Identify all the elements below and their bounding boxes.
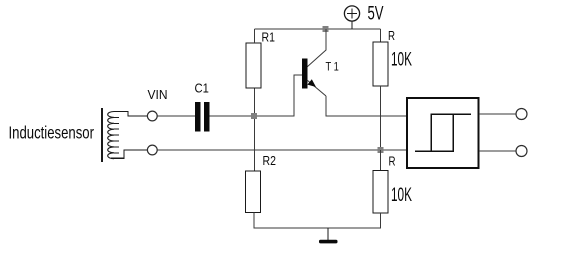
schmitt trigger box U1 bbox=[407, 98, 479, 168]
wire collector bbox=[307, 29, 326, 67]
svg-text:C1: C1 bbox=[195, 81, 210, 96]
wire inductor top lead bbox=[114, 112, 147, 117]
resistor R2 bbox=[246, 171, 261, 213]
transistor T1 base bar bbox=[302, 59, 308, 89]
wire lower signal line bbox=[157, 149, 407, 151]
schmitt hysteresis symbol bbox=[415, 114, 471, 151]
wire rail down to R top bbox=[380, 29, 382, 42]
terminal bottom circle bbox=[147, 145, 157, 155]
resistor R top 10K bbox=[373, 42, 388, 86]
ground stem bbox=[327, 228, 329, 240]
svg-text:5V: 5V bbox=[368, 3, 384, 24]
wire node C down to R bottom bbox=[380, 150, 382, 171]
node A junction bbox=[251, 113, 257, 119]
ground bar bbox=[319, 240, 338, 244]
node C junction bbox=[378, 147, 384, 153]
terminal output bottom circle bbox=[516, 146, 527, 157]
wire inductor bottom lead bbox=[111, 150, 148, 158]
power 5V symbol bbox=[344, 6, 359, 29]
svg-text:R1: R1 bbox=[262, 32, 275, 45]
wire output bottom bbox=[479, 150, 516, 152]
resistor R bottom 10K bbox=[373, 171, 388, 214]
node B junction collector-rail bbox=[323, 26, 329, 32]
svg-text:R: R bbox=[389, 156, 396, 169]
wire terminal to C1 bbox=[157, 115, 195, 117]
svg-text:R2: R2 bbox=[263, 155, 276, 168]
svg-text:10K: 10K bbox=[391, 50, 412, 70]
wire R1 top to rail bbox=[254, 29, 256, 43]
inductor L1 core line bbox=[101, 108, 103, 162]
inductor L1 coil ticks bbox=[114, 117, 119, 152]
wire R top bottom to node C bbox=[380, 86, 382, 150]
terminal output top circle bbox=[516, 109, 527, 120]
svg-text:10K: 10K bbox=[391, 185, 412, 205]
terminal VIN top circle bbox=[147, 111, 157, 121]
wire C1 to node A bbox=[210, 115, 255, 117]
svg-text:Inductiesensor: Inductiesensor bbox=[9, 124, 94, 143]
wire node A up to R1 bbox=[254, 88, 256, 116]
svg-text:T 1: T 1 bbox=[326, 61, 339, 74]
transistor T1 emitter with arrow bbox=[307, 79, 326, 96]
svg-text:R: R bbox=[388, 30, 395, 43]
capacitor C1 bbox=[195, 102, 210, 132]
wire output top bbox=[479, 113, 516, 115]
svg-text:VIN: VIN bbox=[148, 88, 168, 102]
wire top rail bbox=[255, 28, 381, 30]
inductor L1 coil bbox=[108, 112, 114, 159]
wire bottom rail bbox=[254, 213, 381, 229]
resistor R1 bbox=[246, 43, 261, 88]
wire node A down to R2 bbox=[254, 116, 256, 171]
wire emitter down and to box bbox=[326, 96, 407, 116]
wire node A to base corner bbox=[254, 75, 302, 116]
